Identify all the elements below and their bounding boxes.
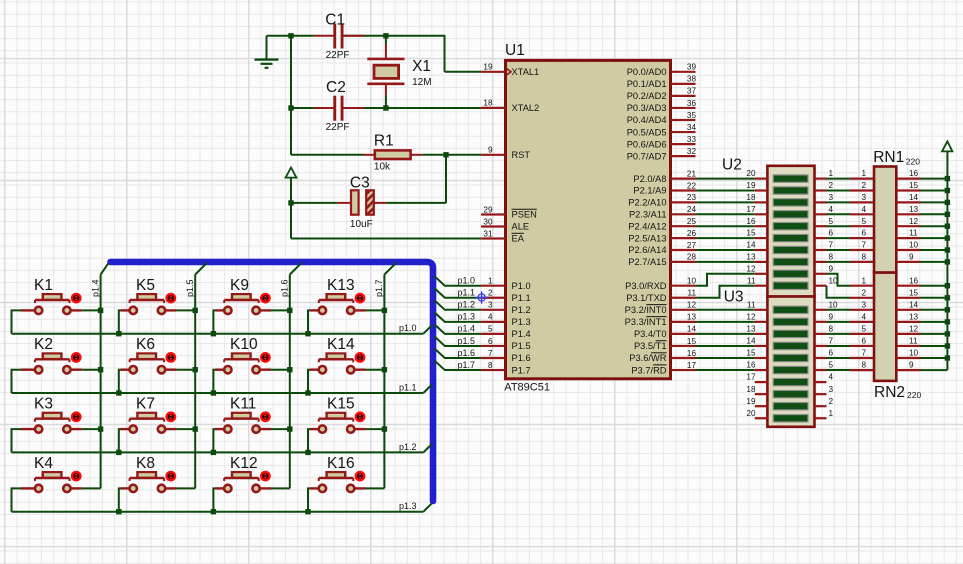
U1 left pin names [512,67,540,375]
svg-text:13: 13 [909,312,919,321]
svg-text:3: 3 [861,300,866,309]
svg-text:K13: K13 [327,277,355,294]
svg-text:38: 38 [687,75,697,84]
origin marker (blue crosshair) [475,291,488,304]
svg-text:18: 18 [746,385,756,394]
svg-text:8: 8 [861,253,866,262]
svg-text:P2.4/A12: P2.4/A12 [628,221,666,231]
svg-text:9: 9 [909,361,914,370]
wire keypad column p1.5 [193,263,208,489]
svg-text:K10: K10 [230,336,258,353]
RN1 pin numbers [861,169,918,261]
LED bargraph U3 [767,297,814,427]
svg-text:C1: C1 [325,11,345,28]
svg-text:P1.3: P1.3 [512,317,531,327]
svg-text:13: 13 [746,325,756,334]
wire C3 net / EA net [288,200,481,238]
svg-text:11: 11 [747,300,756,309]
svg-text:24: 24 [687,205,697,214]
U3 pin numbers [746,300,838,417]
svg-text:17: 17 [687,361,697,370]
svg-text:14: 14 [687,325,697,334]
svg-text:14: 14 [746,337,756,346]
svg-text:11: 11 [909,229,918,238]
svg-text:P0.5/AD5: P0.5/AD5 [627,127,667,137]
svg-text:26: 26 [687,229,697,238]
svg-text:P2.2/A10: P2.2/A10 [628,198,666,208]
svg-text:5: 5 [488,325,493,334]
push button K16 [308,471,384,512]
svg-text:17: 17 [746,373,756,382]
svg-text:K6: K6 [136,336,155,353]
svg-text:U3: U3 [724,289,744,306]
svg-text:5: 5 [861,325,866,334]
U2 right pin stubs [815,179,827,286]
op-amp U1 AT89C51 microcontroller body [506,60,671,378]
svg-text:1: 1 [861,169,866,178]
svg-text:3: 3 [488,301,493,310]
svg-text:36: 36 [687,99,697,108]
wires P2.0-P2.7 to U2 pins 20-13 [696,179,755,262]
svg-text:16: 16 [909,169,919,178]
svg-text:P1.5: P1.5 [512,341,531,351]
svg-text:P1.0: P1.0 [512,281,531,291]
wire keypad column p1.6 [287,263,302,489]
wire keypad row p1.0 [12,325,432,336]
svg-text:6: 6 [829,349,834,358]
svg-text:16: 16 [746,361,756,370]
RN2 pin numbers [861,276,918,369]
svg-text:12M: 12M [412,77,431,88]
svg-text:15: 15 [909,288,919,297]
svg-text:5: 5 [829,361,834,370]
svg-text:U1: U1 [505,42,525,59]
svg-text:16: 16 [746,217,756,226]
svg-text:10k: 10k [374,162,391,173]
svg-text:4: 4 [488,313,493,322]
svg-text:p1.0: p1.0 [399,323,417,333]
svg-text:29: 29 [483,205,493,214]
svg-text:15: 15 [746,349,756,358]
svg-text:p1.3: p1.3 [399,501,417,511]
svg-text:33: 33 [687,135,697,144]
wire keypad row p1.1 [12,385,432,396]
svg-text:K5: K5 [136,277,155,294]
net labels p1.0-p1.7 [458,276,476,370]
svg-text:28: 28 [687,253,697,262]
capacitor C1 [314,24,364,49]
svg-text:6: 6 [488,337,493,346]
svg-text:7: 7 [829,337,834,346]
svg-text:P2.1/A9: P2.1/A9 [633,186,666,196]
svg-text:K14: K14 [327,336,355,353]
wire RST net (R1 to U1 RST, node to C3) [422,152,481,203]
resistor network RN2 [850,273,921,381]
svg-text:C2: C2 [326,79,346,96]
svg-text:K3: K3 [34,396,53,413]
svg-text:AT89C51: AT89C51 [504,381,550,393]
svg-text:RST: RST [512,150,531,160]
svg-text:K4: K4 [34,455,53,472]
wire XTAL1 net (C1 right plate to U1 XTAL1, node at X1 top) [267,33,482,72]
svg-text:8: 8 [861,361,866,370]
svg-text:37: 37 [687,87,697,96]
svg-text:p1.3: p1.3 [458,312,476,322]
svg-text:P2.0/A8: P2.0/A8 [633,174,666,184]
svg-text:14: 14 [909,193,919,202]
svg-text:X1: X1 [412,58,431,75]
svg-text:19: 19 [746,397,756,406]
svg-text:K15: K15 [327,396,355,413]
svg-text:19: 19 [483,63,493,72]
svg-text:19: 19 [746,181,756,190]
svg-text:22PF: 22PF [326,50,350,61]
svg-text:P0.6/AD6: P0.6/AD6 [627,139,667,149]
svg-text:K2: K2 [34,336,53,353]
svg-text:K9: K9 [230,277,249,294]
svg-text:18: 18 [746,193,756,202]
wire U2 pin 10 jog to RN2 pin 2 [827,286,851,298]
svg-text:4: 4 [829,205,834,214]
svg-text:31: 31 [483,229,493,238]
push button K5 [119,293,195,334]
svg-text:RN2: RN2 [874,384,905,401]
svg-text:K1: K1 [34,277,53,294]
wire keypad column p1.7 [382,263,397,489]
U2 left pin stubs [755,179,768,286]
svg-text:32: 32 [687,147,697,156]
svg-text:P3.7/RD: P3.7/RD [631,365,666,375]
svg-text:10: 10 [829,300,839,309]
svg-text:P0.7/AD7: P0.7/AD7 [627,151,667,161]
capacitor C2 [314,96,364,121]
svg-text:P3.2/INT0: P3.2/INT0 [625,305,667,315]
push button K9 [213,293,289,334]
power symbol (arrow) right [942,141,952,151]
svg-text:P0.1/AD1: P0.1/AD1 [627,79,667,89]
U1 right pin numbers [687,63,697,370]
svg-text:4: 4 [861,205,866,214]
svg-text:2: 2 [861,181,866,190]
svg-text:10: 10 [909,241,919,250]
svg-text:13: 13 [687,313,697,322]
svg-text:10: 10 [687,277,697,286]
svg-text:XTAL2: XTAL2 [512,103,540,113]
svg-text:P3.3/INT1: P3.3/INT1 [625,317,667,327]
clock chevron XTAL1 [507,69,512,76]
svg-text:PSEN: PSEN [512,210,537,220]
svg-text:p1.5: p1.5 [185,279,195,297]
svg-text:22PF: 22PF [326,122,350,133]
U3 left pin stubs [755,310,768,418]
svg-text:3: 3 [829,193,834,202]
push button K15 [308,411,384,452]
push button K14 [308,352,384,393]
svg-text:P3.1/TXD: P3.1/TXD [626,293,667,303]
capacitor C3 (polarized) [337,190,386,214]
resistor R1 [364,150,423,159]
svg-text:6: 6 [829,229,834,238]
svg-text:2: 2 [488,289,493,298]
svg-text:4: 4 [829,373,834,382]
svg-text:p1.0: p1.0 [458,276,476,286]
svg-text:20: 20 [746,409,756,418]
svg-text:p1.2: p1.2 [399,442,417,452]
wire P3.1 jog to U2 pin 11 [696,286,755,298]
svg-text:39: 39 [687,63,697,72]
svg-text:12: 12 [909,217,919,226]
push button K7 [119,411,195,452]
power symbol (arrow) left [286,168,297,203]
svg-text:p1.4: p1.4 [90,279,100,297]
svg-text:p1.2: p1.2 [458,300,476,310]
svg-text:1: 1 [488,277,493,286]
svg-text:16: 16 [909,276,919,285]
svg-text:13: 13 [746,253,756,262]
wire XTAL2 net (C2 to U1 XTAL2, node at X1 bottom) [288,105,481,110]
wire P3.0 jog to U2 pin 12 [696,274,755,286]
svg-text:6: 6 [861,337,866,346]
push button K13 [308,293,384,334]
U3 right pin stubs [815,310,827,418]
svg-text:9: 9 [909,253,914,262]
svg-text:1: 1 [861,276,866,285]
svg-text:2: 2 [829,397,834,406]
svg-text:K7: K7 [136,396,155,413]
svg-text:P0.4/AD4: P0.4/AD4 [627,115,667,125]
wires U3 pins 10-5 to RN2 pins 3-8 [827,310,851,370]
push button K6 [119,352,195,393]
svg-text:7: 7 [861,241,866,250]
svg-text:15: 15 [746,229,756,238]
svg-text:17: 17 [746,205,756,214]
svg-text:P0.0/AD0: P0.0/AD0 [627,67,667,77]
svg-text:15: 15 [909,181,919,190]
wire U2 pin 9 jog to RN2 pin 1 [827,274,851,286]
svg-text:3: 3 [861,193,866,202]
svg-text:P3.6/WR: P3.6/WR [629,353,666,363]
svg-text:10uF: 10uF [350,219,373,230]
svg-text:12: 12 [909,325,919,334]
svg-text:7: 7 [829,241,834,250]
push button K10 [213,352,289,393]
wires P3.2-P3.7 to U3 pins 11-16 [696,310,755,370]
svg-text:P3.5/T1: P3.5/T1 [634,341,667,351]
svg-text:27: 27 [687,241,697,250]
wires p1.0-p1.7 bus to U1 P1.0-P1.7 [435,276,482,370]
svg-text:P2.5/A13: P2.5/A13 [628,233,666,243]
svg-text:P1.4: P1.4 [512,329,531,339]
svg-text:p1.7: p1.7 [458,360,476,370]
svg-text:30: 30 [483,217,493,226]
svg-text:RN1: RN1 [873,149,904,166]
wire keypad row p1.3 [12,503,432,514]
svg-text:R1: R1 [374,133,394,150]
svg-text:11: 11 [688,289,697,298]
svg-text:20: 20 [746,169,756,178]
svg-text:p1.7: p1.7 [374,279,384,297]
svg-text:35: 35 [687,111,697,120]
push button K8 [119,471,195,512]
wire keypad column p1.4 [98,264,108,489]
push button K12 [213,471,289,512]
U1 right pin stubs [671,72,696,370]
svg-text:P3.4/T0: P3.4/T0 [634,329,667,339]
svg-text:K12: K12 [230,455,258,472]
svg-text:14: 14 [909,300,919,309]
ground [255,36,279,68]
svg-text:P0.2/AD2: P0.2/AD2 [627,91,667,101]
svg-text:25: 25 [687,217,697,226]
svg-text:P1.1: P1.1 [512,293,531,303]
bus (thick blue) [111,262,434,501]
svg-text:p1.5: p1.5 [458,336,476,346]
svg-text:5: 5 [829,217,834,226]
LED bargraph U2 [767,166,814,297]
svg-text:15: 15 [687,337,697,346]
svg-text:XTAL1: XTAL1 [512,67,540,77]
svg-text:1: 1 [829,169,834,178]
svg-text:1: 1 [829,409,834,418]
svg-text:p1.1: p1.1 [399,383,417,393]
push button K3 [12,411,101,452]
svg-text:7: 7 [488,349,493,358]
push button K2 [12,352,101,393]
svg-text:P2.6/A14: P2.6/A14 [628,245,666,255]
svg-text:p1.4: p1.4 [458,324,476,334]
svg-text:EA: EA [512,234,525,244]
svg-text:21: 21 [687,169,697,178]
svg-text:8: 8 [488,361,493,370]
svg-text:18: 18 [483,99,493,108]
svg-text:9: 9 [488,146,493,155]
svg-text:11: 11 [909,337,918,346]
wires U2 pins 1-8 to RN1 pins 1-8 [827,179,851,262]
svg-text:K16: K16 [327,455,355,472]
svg-text:23: 23 [687,193,697,202]
svg-text:10: 10 [909,349,919,358]
svg-text:K11: K11 [230,396,256,413]
svg-text:P1.6: P1.6 [512,353,531,363]
wire vertical C1/C2/R1 net at x=291 [290,36,292,155]
svg-text:P3.0/RXD: P3.0/RXD [625,281,667,291]
svg-text:P1.2: P1.2 [512,305,531,315]
svg-text:7: 7 [861,349,866,358]
svg-text:11: 11 [747,276,756,285]
svg-text:4: 4 [861,312,866,321]
svg-text:p1.1: p1.1 [458,288,476,298]
svg-text:P2.3/A11: P2.3/A11 [629,210,667,220]
svg-text:14: 14 [746,241,756,250]
svg-text:9: 9 [829,312,834,321]
svg-text:p1.6: p1.6 [280,279,290,297]
push button K1 [12,293,101,334]
svg-text:220: 220 [906,157,920,167]
resistor network RN1 [850,167,921,273]
wire power rail [921,151,951,370]
svg-text:220: 220 [907,390,921,400]
svg-text:P0.3/AD3: P0.3/AD3 [627,103,667,113]
svg-text:ALE: ALE [512,222,530,232]
svg-text:12: 12 [746,264,756,273]
svg-text:9: 9 [829,264,834,273]
svg-text:16: 16 [687,349,697,358]
svg-text:6: 6 [861,229,866,238]
svg-text:22: 22 [687,181,697,190]
svg-text:2: 2 [861,288,866,297]
push button K4 [12,471,101,512]
svg-text:C3: C3 [350,174,370,191]
U1 right pin names [625,67,667,375]
svg-text:34: 34 [687,123,697,132]
svg-text:U2: U2 [722,156,742,173]
svg-text:12: 12 [687,301,697,310]
svg-text:p1.6: p1.6 [458,348,476,358]
wire keypad row p1.2 [12,444,432,455]
svg-text:8: 8 [829,253,834,262]
svg-text:12: 12 [746,312,756,321]
svg-text:2: 2 [829,181,834,190]
svg-text:5: 5 [861,217,866,226]
U2 pin numbers [746,169,838,285]
svg-text:3: 3 [829,385,834,394]
svg-text:P1.7: P1.7 [512,365,531,375]
svg-text:13: 13 [909,205,919,214]
U1 left pin stubs [481,72,505,370]
svg-text:8: 8 [829,325,834,334]
crystal X1 [367,37,404,108]
svg-text:P2.7/A15: P2.7/A15 [628,257,666,267]
svg-text:K8: K8 [136,455,155,472]
push button K11 [213,411,289,452]
U1 left pin numbers [483,63,493,370]
